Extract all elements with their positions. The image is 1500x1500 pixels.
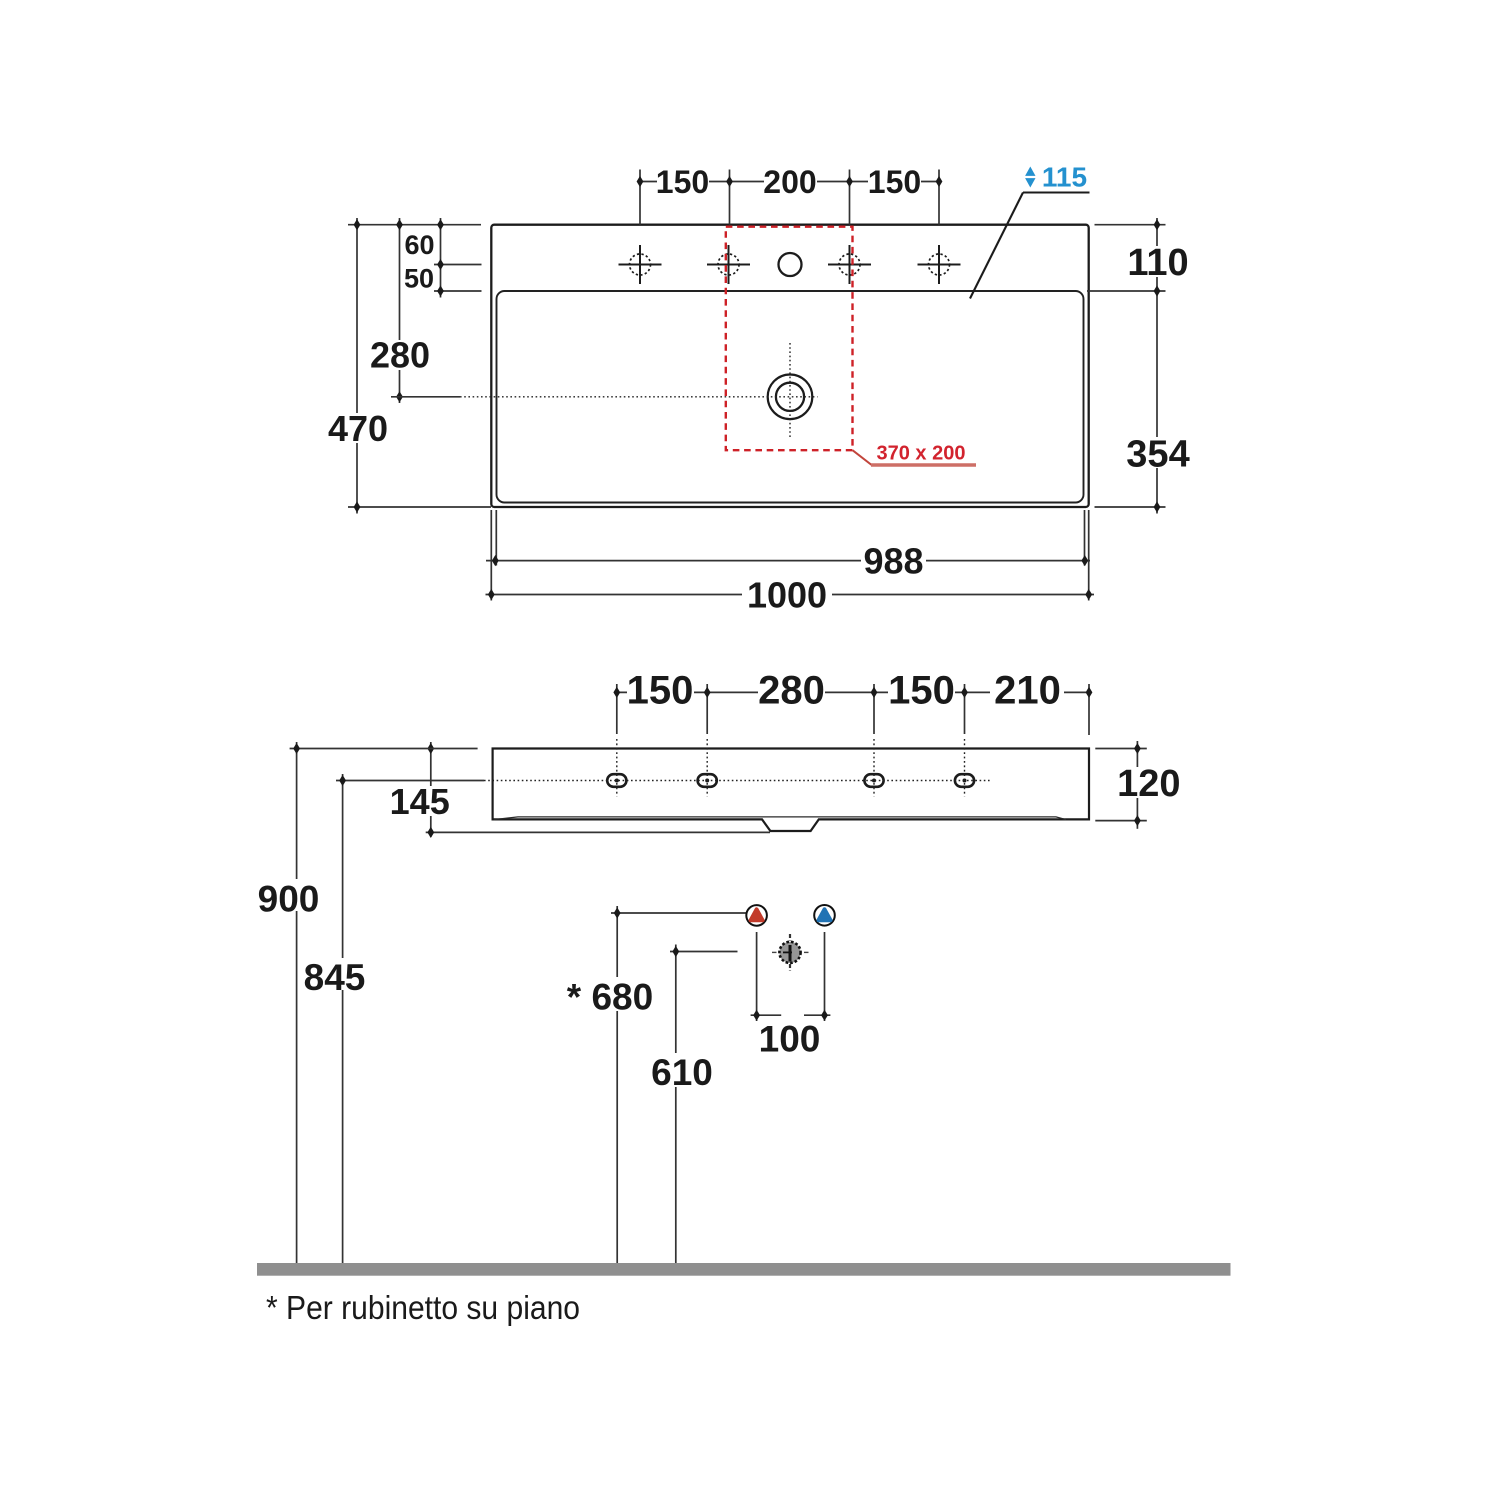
dim 120 line [1136, 741, 1138, 829]
cold water symbol (blue) [814, 905, 835, 926]
svg-text:115: 115 [1042, 162, 1087, 193]
svg-text:120: 120 [1117, 763, 1180, 805]
red leader line [853, 450, 977, 464]
basin inner bowl (top view) [497, 291, 1084, 503]
svg-text:50: 50 [404, 264, 434, 294]
far-left extension lines [290, 748, 478, 750]
svg-text:150: 150 [656, 164, 709, 200]
basin outer rim (top view) [491, 225, 1088, 507]
elevation top dim line 150/280/150/210 [617, 691, 1089, 693]
svg-text:470: 470 [328, 408, 388, 449]
svg-text:900: 900 [258, 879, 320, 920]
basin bottom chamfer line (front elevation) [494, 817, 1066, 820]
elevation top dim extension lines [617, 684, 1089, 735]
dim 100 line segments [751, 1014, 782, 1016]
svg-text:610: 610 [651, 1052, 713, 1093]
svg-text:110: 110 [1127, 242, 1188, 284]
115 leader underline [1023, 191, 1090, 193]
svg-text:988: 988 [863, 540, 923, 581]
svg-text:280: 280 [758, 669, 825, 713]
145 bottom reference line [426, 831, 770, 833]
dim 680 line [616, 906, 618, 1263]
dim 1000 line [486, 594, 1095, 596]
svg-text:145: 145 [390, 781, 450, 822]
hot water symbol (red) [746, 905, 767, 926]
610 top reference line [670, 951, 738, 953]
holes centerline dotted [484, 780, 991, 782]
top dim line 150/200/150 [640, 181, 939, 183]
arrows top dim [637, 176, 943, 187]
faucet hole 3 [828, 245, 871, 284]
svg-text:200: 200 [763, 164, 816, 200]
left extension lines [348, 224, 481, 226]
svg-text:1000: 1000 [747, 575, 827, 616]
115 blue label icon [1025, 167, 1035, 188]
svg-text:210: 210 [994, 669, 1061, 713]
drain symbol (gray) [772, 934, 809, 971]
svg-text:* Per rubinetto su piano: * Per rubinetto su piano [266, 1289, 580, 1326]
drain centerline vertical dotted [789, 343, 791, 437]
dim 110/354 line [1156, 218, 1158, 514]
right 120 extension lines [1095, 748, 1147, 750]
svg-text:150: 150 [627, 669, 694, 713]
right extension lines [1095, 224, 1166, 226]
mounting hole ovals [607, 774, 974, 787]
dim 470 line [356, 218, 358, 514]
115 leader diagonal [970, 193, 1023, 299]
svg-text:100: 100 [759, 1019, 821, 1060]
svg-text:150: 150 [868, 164, 921, 200]
280 leader stub [391, 396, 460, 398]
top dim row: extension lines [639, 170, 641, 225]
680 top reference line [611, 912, 749, 914]
svg-text:* 680: * 680 [567, 977, 653, 1018]
faucet hole 2 [707, 245, 750, 284]
dim 610 line [675, 945, 677, 1264]
dim 60/50 line [440, 218, 442, 298]
svg-text:370 x 200: 370 x 200 [877, 443, 966, 465]
dim 900 line [296, 742, 298, 1263]
floor bar [257, 1263, 1231, 1276]
svg-text:60: 60 [404, 230, 434, 260]
bottom extension lines [490, 510, 492, 601]
overflow hole [779, 253, 802, 276]
dim 988 line [486, 560, 1090, 562]
drain inner circle [776, 383, 804, 411]
drain outer circle [768, 375, 813, 420]
dim 845 line [342, 774, 344, 1263]
basin body outline (front elevation) [493, 749, 1089, 832]
faucet hole 1 [619, 245, 662, 284]
svg-text:150: 150 [888, 669, 955, 713]
dim 100 extension lines [756, 932, 758, 1021]
svg-text:354: 354 [1126, 434, 1189, 476]
svg-text:280: 280 [370, 335, 430, 376]
dim 280 line [399, 218, 401, 403]
faucet hole 4 [918, 245, 961, 284]
dotted verticals through ovals [617, 739, 965, 797]
red underline [871, 463, 976, 466]
drain centerline horizontal dotted [460, 396, 818, 398]
tap zone red dashed rectangle 370x200 [726, 227, 853, 451]
dim 145 line [430, 742, 432, 837]
svg-text:845: 845 [304, 957, 366, 998]
